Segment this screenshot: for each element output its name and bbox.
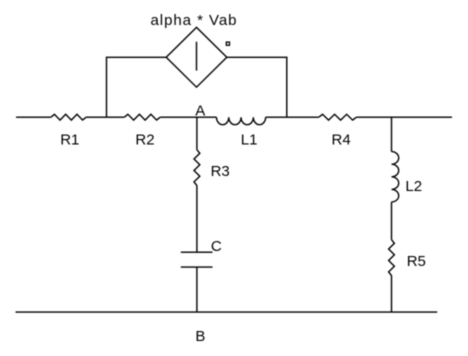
svg-text:L2: L2 (405, 178, 422, 195)
svg-text:A: A (195, 102, 205, 119)
svg-text:R3: R3 (211, 163, 230, 180)
svg-text:R1: R1 (60, 132, 79, 149)
svg-text:C: C (211, 238, 222, 255)
svg-text:L1: L1 (241, 132, 258, 149)
svg-text:R4: R4 (332, 132, 351, 149)
svg-text:R2: R2 (135, 132, 154, 149)
svg-text:B: B (195, 328, 205, 345)
svg-text:R5: R5 (407, 253, 426, 270)
svg-text:alpha * Vab: alpha * Vab (151, 12, 237, 29)
